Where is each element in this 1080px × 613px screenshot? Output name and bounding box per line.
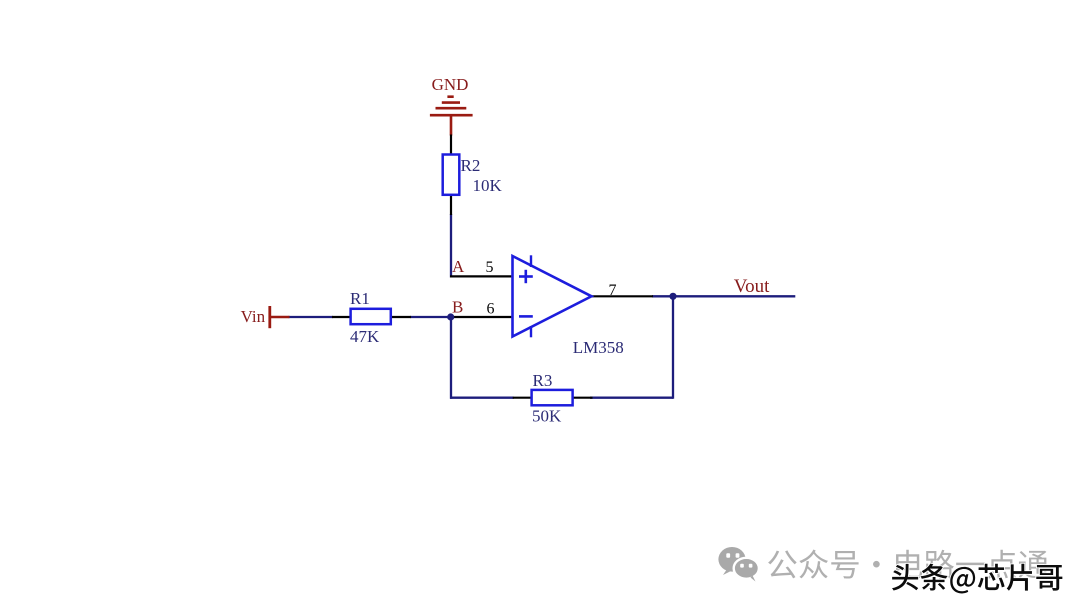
svg-text:50K: 50K xyxy=(532,407,562,426)
svg-text:47K: 47K xyxy=(350,327,380,346)
svg-text:R3: R3 xyxy=(533,371,553,390)
svg-text:R1: R1 xyxy=(350,289,370,308)
svg-text:5: 5 xyxy=(486,259,494,276)
svg-text:GND: GND xyxy=(432,75,469,94)
svg-text:7: 7 xyxy=(609,282,617,299)
svg-text:Vout: Vout xyxy=(734,276,770,297)
svg-text:10K: 10K xyxy=(473,176,503,195)
svg-text:Vin: Vin xyxy=(241,307,266,326)
svg-text:LM358: LM358 xyxy=(573,338,624,357)
svg-text:B: B xyxy=(452,298,463,317)
svg-text:R2: R2 xyxy=(461,156,481,175)
svg-text:6: 6 xyxy=(487,301,495,318)
svg-text:A: A xyxy=(452,257,465,276)
